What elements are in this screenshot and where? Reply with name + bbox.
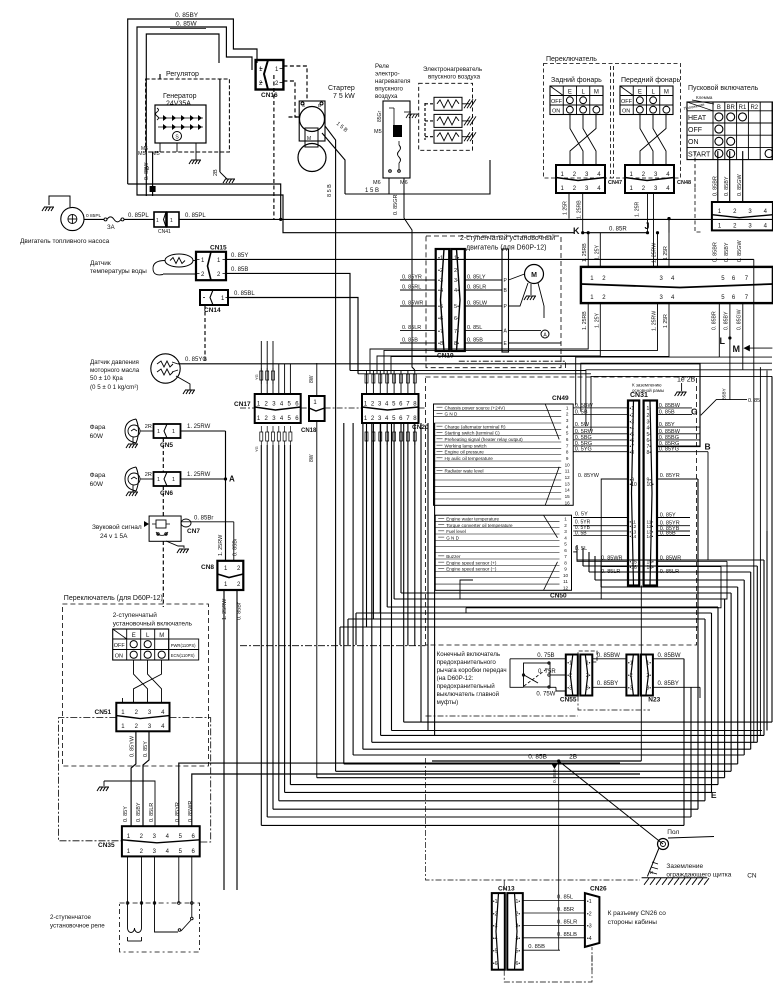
svg-text:0. 85Вг: 0. 85Вг [237,602,243,620]
svg-text:Электронагреватель: Электронагреватель [423,66,482,73]
svg-text:G N D: G N D [445,412,458,417]
svg-text:2: 2 [566,412,569,417]
two-step installation relay [50,903,200,952]
svg-text:5: 5 [566,431,569,436]
wire CN16 to starter dashed [283,66,307,117]
svg-text:Engine water temperature: Engine water temperature [446,517,499,522]
svg-text:2: 2 [564,523,567,528]
front lamp switch table [620,76,681,115]
svg-text:•2: •2 [587,911,592,917]
svg-text:7: 7 [566,443,569,448]
svg-text:15: 15 [565,494,571,499]
wires below CN20 terminals [365,426,416,445]
svg-text:0. 85BY: 0. 85BY [136,802,142,822]
dash-dot CN19 to frame [459,361,566,368]
svg-text:0. 85YG: 0. 85YG [659,447,679,453]
svg-text:12•: 12• [647,524,654,529]
svg-text:•5: •5 [493,949,498,955]
start switch wires down [695,151,743,232]
svg-text:R2: R2 [750,105,758,111]
svg-text:G N D: G N D [446,535,459,540]
svg-text:1 25R: 1 25R [563,201,569,215]
svg-text:•3: •3 [438,278,443,284]
svg-text:0. 85R: 0. 85R [557,907,574,913]
svg-text:Звуковой сигнал: Звуковой сигнал [92,523,142,531]
wires CN31 15 16 buzzer [460,546,727,613]
svg-text:2•: 2• [586,673,591,679]
final switch label [437,651,507,706]
svg-text:M: M [664,90,669,96]
wires N23 outputs [653,653,700,826]
svg-text:B: B [717,105,721,111]
svg-text:0. 85PL: 0. 85PL [128,213,149,219]
svg-text:К разъему CN26 со: К разъему CN26 со [608,910,667,917]
group switch label [544,56,681,178]
start switch connector [712,202,773,230]
svg-text:4: 4 [564,535,567,540]
svg-text:•5: •5 [630,432,635,438]
svg-text:M: M [307,136,311,142]
svg-text:0. 85BR: 0. 85BR [712,176,718,196]
svg-text:6•: 6• [516,961,521,967]
svg-text:Генератор: Генератор [163,93,197,100]
svg-text:Chassis power source (+24V): Chassis power source (+24V) [445,405,506,410]
svg-text:•3: •3 [628,685,633,691]
grounding figure [647,848,659,876]
svg-text:0. 85R: 0. 85R [609,227,627,233]
svg-text:Двигатель топливного насоса: Двигатель топливного насоса [20,238,110,245]
svg-text:•3: •3 [493,924,498,930]
svg-text:OFF: OFF [114,643,126,649]
svg-text:0. 85Вг: 0. 85Вг [233,538,239,556]
svg-text:0. 85PL: 0. 85PL [185,213,206,219]
svg-text:12: 12 [563,585,569,590]
svg-text:•7: •7 [438,329,443,335]
svg-text:0. 85L: 0. 85L [467,325,482,331]
svg-text:•14: •14 [630,534,637,539]
svg-text:YG: YG [254,374,259,380]
wire 0.85WR from right [192,774,640,826]
svg-text:6: 6 [564,548,567,553]
svg-text:E: E [132,633,136,639]
wires above CN17 with terminals [254,341,290,394]
svg-text:0. 85YW: 0. 85YW [130,735,136,757]
wires below CN8 [222,590,243,890]
svg-text:•2: •2 [493,911,498,917]
ground oil sensor [176,376,195,394]
svg-text:•10: •10 [630,482,638,488]
svg-text:0. 85BY: 0. 85BY [724,176,730,196]
svg-text:L: L [720,336,726,346]
svg-text:K: K [573,226,580,236]
svg-text:ON: ON [622,109,630,115]
wire 0.85YG oil pressure [178,357,700,447]
wire 0.85Y water temp [226,253,754,259]
svg-text:G: G [691,407,698,417]
svg-text:Датчик: Датчик [90,260,111,267]
connector N23 [626,655,660,704]
svg-text:1. 25RB: 1. 25RB [582,243,588,262]
svg-text:Датчик давления: Датчик давления [90,359,139,366]
ground motor [524,284,536,300]
floor wheel [559,761,714,850]
svg-text:1. 25R: 1. 25R [635,201,641,217]
svg-text:0. 85ВY: 0. 85ВY [597,681,618,687]
connector CN26 [585,886,607,947]
svg-text:1. 25RB: 1. 25RB [582,311,588,330]
svg-text:7 5 kW: 7 5 kW [333,93,355,100]
intake air heater [419,66,482,150]
node J [645,221,650,234]
ground frame 2B [632,377,727,401]
svg-text:10: 10 [565,462,571,467]
connector CN41 [154,212,179,235]
svg-text:К заземлению: К заземлению [632,383,662,388]
svg-text:•3: •3 [587,924,592,930]
svg-text:0. 85GW: 0. 85GW [737,239,743,262]
svg-text:основной рамы: основной рамы [632,387,664,393]
svg-text:M: M [531,272,537,279]
svg-text:8W: 8W [309,375,315,383]
water temperature sensor [90,254,196,275]
wire 15B run to heater relay [345,160,490,194]
starter motor 7.5kW [298,85,355,172]
svg-text:E: E [638,90,642,96]
wires harness to CN20 [370,303,669,374]
svg-text:Charge (alternator terminal R): Charge (alternator terminal R) [445,424,506,429]
svg-text:1•: 1• [586,661,591,667]
svg-text:CN31: CN31 [630,392,648,399]
svg-text:•6: •6 [493,961,498,967]
wires CN31 11-14 [573,512,690,537]
svg-text:13: 13 [565,481,571,486]
svg-text:•8: •8 [438,341,443,347]
svg-text:8: 8 [566,450,569,455]
front switch crossing wires [640,115,666,166]
wires start switch branch down [719,303,743,400]
regulator box [146,71,230,152]
svg-text:•4: •4 [438,288,443,294]
wire starter B to 15B [322,121,349,194]
connector CN16 [256,60,284,99]
svg-text:CN7: CN7 [187,528,200,535]
svg-text:0. 85Y: 0. 85Y [231,253,248,259]
svg-text:M: M [733,344,741,354]
svg-text:6•: 6• [454,316,459,322]
svg-text:24 v 1 5А: 24 v 1 5А [100,533,128,540]
svg-text:YG: YG [254,446,259,452]
svg-text:CN18: CN18 [301,428,317,434]
svg-text:•1: •1 [567,661,572,667]
svg-text:0. 85L: 0. 85L [557,895,574,901]
svg-text:•2: •2 [567,673,572,679]
deep staircase bundle [261,423,772,825]
svg-text:CN14: CN14 [204,307,221,314]
dash frame bottom [240,646,640,880]
svg-text:1•: 1• [646,661,651,667]
start switch table [683,84,773,160]
wire M-terminal vertical [138,34,219,196]
svg-text:OFF: OFF [688,127,702,134]
terminal A circle [509,330,550,339]
wire dash starter left [274,75,299,220]
svg-text:моторного масла: моторного масла [90,367,140,374]
svg-text:Переключатель: Переключатель [546,56,597,63]
wire B terminal [141,146,156,196]
svg-text:0. 85ВY: 0. 85ВY [658,681,679,687]
svg-text:температуры воды: температуры воды [90,268,147,275]
svg-text:0. 85YR: 0. 85YR [402,275,422,281]
connector CN31 [628,392,657,586]
svg-text:3•: 3• [516,924,521,930]
svg-text:Engine speed sensor (−): Engine speed sensor (−) [446,567,497,572]
connector CN48 [625,165,691,193]
svg-text:0. 85GR: 0. 85GR [393,194,399,215]
svg-text:60W: 60W [90,481,104,488]
dash-dot CN17 CN18 CN20 link [240,407,426,409]
svg-text:•1: •1 [438,256,443,262]
svg-text:E: E [568,90,572,96]
svg-text:0. 85Y: 0. 85Y [143,741,149,757]
wire 0.85B water temp [226,267,586,371]
svg-text:4•: 4• [647,425,652,431]
svg-text:0. 85BR: 0. 85BR [712,311,718,330]
wires CN51 to CN35 [130,731,149,826]
svg-text:выключатель главной: выключатель главной [437,691,500,698]
node G [691,398,760,417]
wire headlights join A [224,431,235,561]
svg-text:14•: 14• [647,534,654,539]
svg-text:•6: •6 [438,316,443,322]
svg-text:1. 25RW: 1. 25RW [652,243,658,263]
svg-text:•3: •3 [567,685,572,691]
svg-text:Radiator wate level: Radiator wate level [445,469,484,474]
svg-text:Клемма: Клемма [696,95,713,100]
dash-dot CN55 frame [426,696,651,717]
connector CN35 [98,826,200,856]
generator G1 24V35A [155,93,206,152]
connector CN50 signal box [435,515,571,599]
connector CN13 [492,886,523,970]
wires K J to frame connector [582,217,671,267]
svg-text:10: 10 [563,573,569,578]
svg-text:•1: •1 [628,661,633,667]
svg-text:CN17: CN17 [234,401,251,408]
svg-text:Заземление: Заземление [666,863,703,870]
svg-text:CN13: CN13 [498,886,515,893]
svg-text:A: A [229,475,235,484]
svg-text:Стартер: Стартер [328,85,355,92]
connector CN49 signal box [434,395,574,505]
svg-text:0. 85B: 0. 85B [660,531,676,537]
svg-text:0. 5BW: 0. 5BW [575,403,594,409]
svg-text:B: B [145,166,151,170]
svg-text:Регулятор: Регулятор [166,71,199,78]
svg-text:M6: M6 [373,180,381,186]
svg-text:•1: •1 [493,899,498,905]
wires CN55 N23 [578,651,626,687]
wires CN31 9 10 [578,473,698,599]
svg-text:1. 25RW: 1. 25RW [222,598,228,620]
connector CN15 [196,245,227,281]
upper staircase bundle [340,423,764,735]
svg-text:1. 25RB: 1. 25RB [577,200,583,219]
wire CN19 pin8 0.85B [509,342,562,344]
svg-text:B: B [705,442,711,452]
svg-text:Preheating signal (heater rela: Preheating signal (heater relay output) [445,437,524,442]
node M [733,344,773,354]
svg-text:M: M [159,633,164,639]
wires CN47 down [563,194,583,233]
node L [720,336,732,346]
svg-text:ON: ON [552,109,560,115]
svg-text:•4: •4 [630,425,635,431]
svg-text:3: 3 [566,418,569,423]
svg-text:CN5: CN5 [160,442,173,449]
svg-text:R1: R1 [739,105,747,111]
svg-text:1: 1 [564,517,567,522]
fuel pump motor [20,196,110,245]
svg-text:CN55: CN55 [560,697,577,704]
svg-text:1: 1 [172,429,175,435]
svg-text:J: J [645,221,650,231]
svg-text:(0 5 ± 0 1 kg/cm²): (0 5 ± 0 1 kg/cm²) [90,384,138,391]
wire 0.85BY top frame [128,12,257,184]
svg-text:0. 85YW: 0. 85YW [578,473,600,479]
svg-text:ON: ON [115,654,123,660]
svg-text:0. 85YR: 0. 85YR [660,473,680,479]
wire regulator to 2B ground [213,79,235,183]
svg-text:•1: •1 [587,899,592,905]
svg-text:M: M [594,90,599,96]
svg-text:Фара: Фара [90,424,106,431]
svg-text:CN26: CN26 [590,886,607,893]
svg-text:CN: CN [747,873,757,880]
svg-text:7: 7 [564,554,567,559]
svg-text:ECN(110PS): ECN(110PS) [171,653,195,658]
svg-text:0. 85LR: 0. 85LR [149,803,155,822]
svg-text:1. 25RW: 1. 25RW [652,311,658,331]
svg-text:предохранительный: предохранительный [437,683,496,690]
svg-text:0. 85LR: 0. 85LR [402,325,421,331]
svg-text:предохранительного: предохранительного [437,659,497,666]
svg-text:0. 85WR: 0. 85WR [188,801,194,822]
svg-text:12: 12 [565,475,571,480]
svg-text:1е 2В: 1е 2В [677,377,696,384]
svg-text:2•: 2• [647,413,652,419]
svg-text:0. 85В: 0. 85В [528,944,545,950]
svg-text:CN35: CN35 [98,842,115,849]
svg-text:OFF: OFF [621,99,633,105]
svg-text:1 25R: 1 25R [663,314,669,328]
svg-text:0. 85BY: 0. 85BY [175,12,199,19]
svg-text:•2: •2 [628,673,633,679]
svg-text:0. 85LR: 0. 85LR [467,285,486,291]
svg-text:14: 14 [565,488,571,493]
svg-text:M5: M5 [141,146,148,152]
svg-text:2-ступенчатый установочный: 2-ступенчатый установочный [460,234,555,242]
svg-text:0. 5B: 0. 5B [575,531,587,537]
svg-text:0 85PL: 0 85PL [86,213,102,219]
svg-text:Переключатель (для D60P-12): Переключатель (для D60P-12) [64,595,163,602]
wire from frame to 0.85PL junction [128,184,281,219]
svg-text:0. 85W: 0. 85W [176,21,197,28]
svg-text:5: 5 [564,542,567,547]
svg-text:1. 25Y: 1. 25Y [594,312,600,328]
svg-text:стороны кабины: стороны кабины [608,918,658,926]
svg-text:0. 85Y: 0. 85Y [659,422,675,428]
setting motor [509,265,545,319]
wires CN13 CN26 [523,895,666,951]
wires below start connector [712,239,743,262]
ground horn [166,541,189,553]
svg-text:9: 9 [566,456,569,461]
svg-text:CN16: CN16 [261,92,278,99]
svg-text:Пусковой включатель: Пусковой включатель [688,84,759,92]
wire 0.85YR from right [179,763,620,826]
wire fuel pump 0.85PL with fuse 3A [84,213,154,231]
svg-text:1. 25RW: 1. 25RW [218,534,224,556]
connector CN18 [301,363,325,778]
wire 0.85PL to right [179,213,773,221]
CN31 right wires [657,403,708,560]
svg-text:0. 85BY: 0. 85BY [724,311,730,330]
wire 0.85BL [228,298,358,374]
right bundle verticals [684,259,772,825]
svg-text:2•: 2• [646,673,651,679]
connector CN8 [201,561,243,590]
svg-text:впускного: впускного [375,86,403,93]
svg-text:ON: ON [688,139,699,146]
svg-text:0. 85BW: 0. 85BW [659,403,681,409]
svg-text:0. 85ВW: 0. 85ВW [658,653,681,659]
svg-text:0. 85RL: 0. 85RL [402,285,421,291]
svg-text:0. 85LY: 0. 85LY [467,275,486,281]
installation switch table [113,629,199,660]
svg-text:•12: •12 [630,524,637,529]
monitor unit dashed box [426,377,697,645]
connector CN47 [556,165,622,193]
svg-text:CN6: CN6 [160,490,173,497]
svg-text:CN47: CN47 [608,180,622,186]
wires CN48 down [635,194,654,267]
wires CN35 to relay [126,856,193,904]
svg-text:1: 1 [157,429,160,435]
svg-text:0. 85B: 0. 85B [467,338,483,344]
svg-text:4•: 4• [516,936,521,942]
lever safety switch [510,653,566,698]
svg-text:Передний фонарь: Передний фонарь [621,76,681,84]
svg-text:CN49: CN49 [552,395,569,402]
svg-text:CN41: CN41 [158,229,171,235]
svg-text:0. 85Вг: 0. 85Вг [194,516,214,522]
wire 0.85W top frame [137,21,252,187]
svg-text:•4: •4 [493,936,498,942]
svg-text:1. 25RW: 1. 25RW [187,424,211,430]
svg-text:10•: 10• [647,482,655,488]
connector CN14 [200,290,591,374]
rear lamp switch table [550,76,603,115]
dash-dot CN51 to CN35 [59,718,211,842]
svg-text:Fuel level: Fuel level [446,529,466,534]
svg-text:8•: 8• [647,450,652,456]
connector CN51 [95,703,170,732]
svg-text:Torque converter oil temperat: Torque converter oil temperature [446,523,513,528]
svg-text:0. 85YR: 0. 85YR [175,802,181,822]
svg-text:24V35А: 24V35А [166,101,191,108]
wires below frame connector [582,309,743,331]
relay of intake air heater [373,63,410,186]
